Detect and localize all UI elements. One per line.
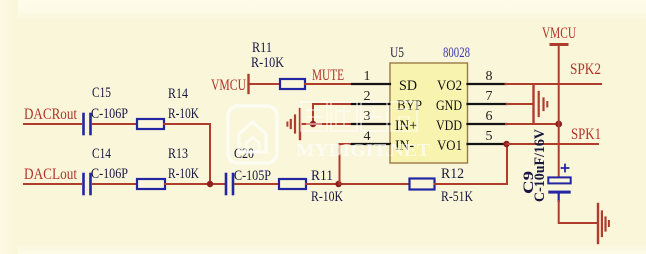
svg-text:5: 5 bbox=[486, 129, 493, 144]
svg-text:MUTE: MUTE bbox=[312, 67, 344, 84]
svg-text:SPK2: SPK2 bbox=[570, 61, 601, 78]
pin 8 VO2 bbox=[468, 83, 506, 85]
wire GND pin to ground bbox=[507, 103, 533, 105]
svg-text:1: 1 bbox=[364, 69, 371, 84]
svg-text:SPK1: SPK1 bbox=[571, 126, 601, 143]
pin 1 SD bbox=[352, 83, 390, 85]
wire VO1 to SPK1 bbox=[507, 143, 599, 145]
svg-text:U5: U5 bbox=[390, 45, 404, 61]
wire VMCU to R11 top bbox=[249, 83, 281, 85]
ground (IN+ bypass, pointing left) bbox=[299, 109, 301, 139]
svg-text:R-10K: R-10K bbox=[311, 189, 343, 205]
svg-text:C-106P: C-106P bbox=[91, 106, 128, 122]
pin 4 IN- bbox=[352, 143, 390, 145]
svg-text:6: 6 bbox=[486, 109, 493, 124]
svg-text:C15: C15 bbox=[92, 85, 111, 101]
watermark logo bbox=[228, 106, 277, 163]
svg-text:C20: C20 bbox=[234, 146, 254, 162]
svg-text:R14: R14 bbox=[168, 86, 188, 102]
junction IN- feedback node bbox=[335, 181, 341, 187]
capacitor C14 bbox=[82, 174, 85, 194]
svg-text:C-106P: C-106P bbox=[91, 166, 128, 182]
svg-text:DACLout: DACLout bbox=[24, 166, 77, 183]
resistor R12 bbox=[410, 179, 435, 190]
pin 3 IN+ bbox=[352, 123, 390, 125]
svg-text:R12: R12 bbox=[441, 166, 464, 182]
op-amp U5 (audio amp 80028) body bbox=[390, 63, 468, 163]
svg-text:SD: SD bbox=[399, 78, 417, 94]
capacitor C20 bbox=[225, 174, 228, 194]
capacitor C9 (polarized) bbox=[548, 177, 570, 183]
wire junction up to IN- pin4 bbox=[340, 144, 353, 184]
node VDD junction bbox=[555, 121, 562, 128]
wire IN+ pin3 to ground bbox=[300, 123, 352, 125]
junction row2 left bbox=[207, 181, 213, 187]
watermark text bbox=[301, 102, 417, 131]
wire BYP pin2 to junction bbox=[313, 104, 352, 124]
svg-text:R-51K: R-51K bbox=[441, 189, 473, 205]
svg-text:80028: 80028 bbox=[443, 45, 470, 61]
svg-text:VDD: VDD bbox=[436, 118, 462, 134]
wire MUTE net to pin 1 bbox=[305, 83, 352, 85]
svg-text:VMCU: VMCU bbox=[211, 77, 246, 94]
svg-text:R-10K: R-10K bbox=[168, 106, 199, 122]
node BYP/IN+ junction bbox=[310, 121, 316, 127]
wire VO2 to SPK2 bbox=[506, 83, 602, 85]
wire C14 to R13 bbox=[93, 183, 137, 185]
ground (GND pin, pointing right) bbox=[532, 86, 534, 123]
svg-text:BYP: BYP bbox=[397, 98, 422, 114]
capacitor C15 bbox=[82, 114, 85, 134]
node VO1 junction bbox=[503, 141, 509, 147]
wire DACRout to C15 bbox=[24, 123, 81, 125]
wire R11 to R12 bbox=[306, 183, 409, 185]
resistor R11 (top) bbox=[280, 79, 305, 89]
svg-text:R11: R11 bbox=[252, 40, 272, 56]
svg-text:DACRout: DACRout bbox=[24, 106, 77, 123]
svg-text:C14: C14 bbox=[92, 146, 111, 162]
svg-text:7: 7 bbox=[486, 89, 493, 104]
wire C9 to ground bbox=[559, 201, 597, 223]
svg-text:C-105P: C-105P bbox=[234, 168, 271, 184]
svg-text:C-10uF/16V: C-10uF/16V bbox=[532, 129, 548, 202]
svg-text:R-10K: R-10K bbox=[168, 166, 199, 182]
resistor R14 bbox=[137, 119, 164, 129]
pin 7 GND bbox=[468, 103, 507, 105]
svg-text:VMCU: VMCU bbox=[542, 25, 576, 42]
wire C15 to R14 bbox=[93, 123, 137, 125]
wire R13 to C20 bbox=[165, 183, 225, 185]
svg-text:8: 8 bbox=[486, 69, 493, 84]
svg-text:R11: R11 bbox=[311, 168, 333, 184]
pin 6 VDD bbox=[468, 123, 507, 125]
wire C20 to R11 bottom bbox=[235, 183, 279, 185]
pin 2 BYP bbox=[352, 103, 390, 105]
svg-text:GND: GND bbox=[436, 98, 462, 114]
svg-text:R13: R13 bbox=[168, 146, 188, 162]
ground (bottom right) bbox=[597, 204, 599, 243]
svg-text:VO1: VO1 bbox=[437, 138, 462, 154]
resistor R13 bbox=[137, 179, 165, 189]
wire DACLout to C14 bbox=[24, 183, 81, 185]
svg-text:MYDIGIT.NET: MYDIGIT.NET bbox=[296, 140, 430, 160]
wire R14 right then down to row2 bbox=[164, 124, 210, 184]
pin 5 VO1 bbox=[468, 143, 506, 145]
svg-text:R-10K: R-10K bbox=[251, 55, 284, 71]
resistor R11 (bottom) bbox=[279, 179, 306, 189]
wire R12 right then up to VO1 bbox=[435, 145, 508, 184]
svg-text:VO2: VO2 bbox=[437, 78, 462, 94]
wire VMCU rail down to C9 bbox=[558, 46, 560, 177]
wire VDD to VMCU rail bbox=[506, 123, 559, 125]
